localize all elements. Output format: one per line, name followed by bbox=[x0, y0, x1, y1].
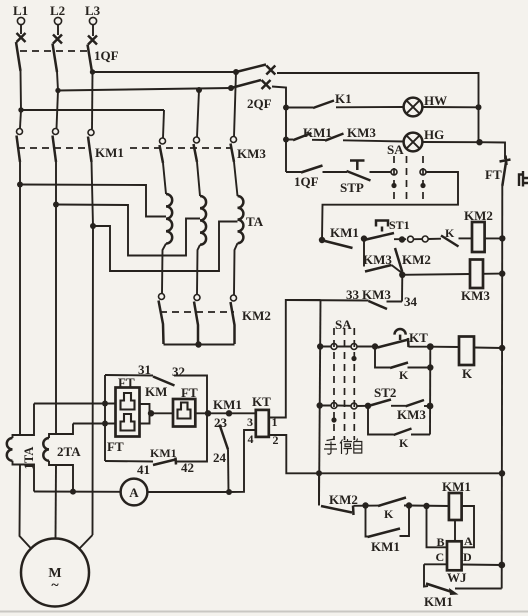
wire KM3 pole3 top bbox=[234, 72, 236, 137]
KM3 linkage dashed bbox=[130, 147, 232, 149]
svg-text:FT: FT bbox=[107, 439, 124, 454]
wire phase2 down to KM1 bbox=[57, 91, 59, 129]
wire SA left rail bbox=[319, 300, 321, 505]
wire K1 row bbox=[286, 106, 404, 109]
SA position dot bbox=[420, 183, 425, 188]
contactor KM3 pole 1 bbox=[160, 138, 166, 163]
contactor coil KM1 bbox=[449, 493, 462, 520]
svg-text:ST1: ST1 bbox=[389, 218, 410, 232]
junction bbox=[372, 343, 378, 349]
svg-text:KM3: KM3 bbox=[397, 407, 426, 422]
svg-text:1TA: 1TA bbox=[22, 447, 36, 470]
wire 1TA secondary to FT block bbox=[34, 403, 105, 405]
selector SA contact d2 bbox=[351, 403, 357, 409]
contactor KM2 pole 2 bbox=[194, 295, 200, 345]
junction bbox=[70, 489, 76, 495]
svg-text:KT: KT bbox=[409, 330, 428, 345]
node L1 bbox=[13, 3, 28, 25]
wire phase1 below KM1 bbox=[19, 162, 21, 435]
svg-text:L1: L1 bbox=[13, 3, 28, 18]
wire to KM3 coil bbox=[402, 274, 502, 275]
svg-text:A: A bbox=[129, 485, 139, 500]
contact KM1 bottom bbox=[426, 584, 459, 596]
wire STP row bbox=[286, 171, 391, 173]
svg-text:STP: STP bbox=[340, 180, 364, 195]
svg-text:KM1: KM1 bbox=[371, 539, 400, 554]
contact K branch bbox=[375, 347, 430, 369]
junction bbox=[53, 202, 59, 208]
SA position dot bbox=[391, 183, 396, 188]
junction bbox=[317, 343, 323, 349]
svg-text:K: K bbox=[462, 366, 473, 381]
svg-text:2TA: 2TA bbox=[57, 444, 81, 459]
wire SA row return bbox=[322, 172, 458, 240]
wire bypass bottom bbox=[105, 413, 207, 462]
junction bbox=[205, 410, 211, 416]
svg-text:HG: HG bbox=[424, 127, 444, 142]
svg-text:WJ: WJ bbox=[447, 570, 467, 585]
svg-text:33: 33 bbox=[346, 287, 360, 302]
svg-text:FT: FT bbox=[485, 167, 502, 182]
current transformer 2TA bbox=[43, 424, 81, 492]
wire phase3 to 2QF bbox=[92, 71, 236, 74]
selector SA contact c1 bbox=[331, 344, 337, 350]
wire motor funnel mid bbox=[55, 465, 58, 539]
lamp HW bbox=[404, 98, 423, 117]
junction bbox=[90, 69, 95, 74]
svg-text:34: 34 bbox=[404, 294, 418, 309]
wire K coil row bbox=[430, 347, 502, 348]
relay coil K bbox=[459, 337, 474, 366]
contactor KM2 pole 1 bbox=[159, 294, 165, 345]
selector SA contact c2 bbox=[351, 344, 357, 350]
wire 24 down to ammeter line bbox=[227, 450, 230, 493]
svg-text:B: B bbox=[437, 535, 445, 549]
svg-text:32: 32 bbox=[172, 364, 185, 379]
node L2 bbox=[50, 3, 65, 25]
wire WJ C loop down bbox=[424, 564, 428, 586]
junction bbox=[283, 105, 289, 111]
svg-text:KM3: KM3 bbox=[363, 252, 392, 267]
wire motor funnel right bbox=[79, 535, 93, 549]
pushbutton STP bbox=[347, 161, 371, 181]
wire motor funnel left bbox=[20, 435, 32, 549]
svg-text:K: K bbox=[445, 226, 455, 240]
wire phase2 below KM1 bbox=[55, 162, 57, 434]
junction bbox=[399, 272, 405, 278]
junction bbox=[498, 562, 505, 569]
junction bbox=[423, 503, 429, 509]
node L3 bbox=[85, 3, 101, 25]
contact KM1 bbox=[323, 241, 353, 249]
svg-text:KT: KT bbox=[252, 394, 271, 409]
contact KM3 branch bbox=[364, 239, 402, 273]
svg-text:24: 24 bbox=[213, 450, 227, 465]
wire KT to rail bbox=[409, 346, 431, 348]
wire between ST2 KM3 bbox=[391, 405, 406, 407]
wire coil2 bottom bbox=[197, 245, 200, 294]
svg-text:K: K bbox=[399, 368, 409, 382]
wire bbox=[21, 25, 93, 36]
junction bbox=[148, 410, 154, 416]
circuit breaker 2QF pole 1 bbox=[236, 65, 275, 75]
wire KT pin4 loop bbox=[229, 430, 256, 492]
contact KM1 41-42 bbox=[153, 458, 176, 466]
junction bbox=[283, 137, 289, 143]
ammeter A bbox=[121, 479, 148, 506]
wire tap2 to coil2 bbox=[56, 205, 200, 256]
circuit breaker 1QF pole 2 bbox=[53, 35, 63, 73]
svg-text:K: K bbox=[399, 436, 409, 450]
wire FT2 to KT bbox=[195, 412, 256, 414]
contact KM2 branch bbox=[395, 248, 402, 272]
wire KM1 KM3 row bbox=[286, 140, 404, 142]
svg-text:KM: KM bbox=[145, 384, 167, 399]
junction bbox=[427, 343, 434, 350]
wire WJ B loop bbox=[427, 506, 448, 547]
wire WJ C-D row bbox=[424, 563, 502, 566]
contact K branch2 bbox=[368, 406, 430, 435]
wire FT1 outputs merge bbox=[140, 404, 174, 424]
svg-text:KM3: KM3 bbox=[237, 146, 266, 161]
自 label bbox=[354, 439, 362, 454]
wire phase3 below KM1 bbox=[92, 162, 94, 535]
contact KM 31-32 bbox=[153, 377, 175, 386]
wire right rail jog bbox=[480, 142, 506, 159]
junction bbox=[90, 223, 96, 229]
wire ammeter line bbox=[34, 491, 229, 494]
wire KT pin2 down bbox=[269, 435, 502, 473]
wire phase2 feeder bbox=[57, 72, 231, 91]
wire to K contact bbox=[354, 505, 410, 507]
svg-text:3: 3 bbox=[247, 415, 253, 429]
wire tap3 to coil3 bbox=[93, 222, 238, 272]
selector SA contact b2 bbox=[422, 236, 428, 242]
wire coil3 bottom bbox=[234, 243, 238, 294]
junction bbox=[102, 421, 108, 427]
svg-text:KM3: KM3 bbox=[347, 125, 376, 140]
circuit breaker 1QF pole 1 bbox=[16, 33, 26, 71]
junction bbox=[427, 364, 433, 370]
svg-text:KM1: KM1 bbox=[150, 446, 177, 460]
停 label bbox=[340, 439, 352, 454]
junction bbox=[17, 182, 23, 188]
svg-text:KM2: KM2 bbox=[402, 252, 431, 267]
svg-text:TA: TA bbox=[246, 214, 264, 229]
wire phase1 feeder bbox=[21, 71, 165, 110]
KM2 linkage dashed bbox=[160, 311, 234, 313]
junction bbox=[476, 104, 482, 110]
time relay KT coil bbox=[256, 410, 269, 437]
contact K bbox=[441, 236, 459, 247]
svg-text:42: 42 bbox=[181, 460, 194, 475]
wire 2QF pole2 to left rail bbox=[272, 87, 286, 173]
svg-text:FT: FT bbox=[118, 375, 135, 390]
autotransformer TA coil 1 bbox=[166, 194, 172, 244]
junction bbox=[195, 341, 201, 347]
svg-text:KM1: KM1 bbox=[442, 479, 471, 494]
contact KM3 bbox=[406, 400, 425, 406]
svg-text:L2: L2 bbox=[50, 3, 65, 18]
wire KT pin1 up bbox=[269, 300, 321, 418]
contactor KM1 pole 3 bbox=[88, 130, 94, 163]
junction bbox=[228, 85, 234, 91]
svg-text:KM3: KM3 bbox=[461, 288, 490, 303]
junction bbox=[55, 88, 60, 93]
pushbutton ST2 bbox=[370, 400, 391, 406]
KM1 linkage dashed bbox=[18, 147, 90, 149]
wire KM3 pole2 top bbox=[197, 90, 199, 137]
svg-text:A: A bbox=[464, 534, 473, 548]
svg-text:SA: SA bbox=[335, 317, 352, 332]
svg-text:4: 4 bbox=[248, 432, 254, 446]
contact KM3 33-34 bbox=[369, 301, 388, 309]
svg-text:KM1: KM1 bbox=[424, 594, 453, 609]
wire 2TA secondary to FT block bbox=[73, 423, 105, 425]
heater element 2 bbox=[121, 414, 135, 431]
voltage relay WJ bbox=[447, 541, 462, 570]
junction bbox=[499, 345, 505, 351]
wire SA row1 bbox=[321, 346, 376, 348]
junction bbox=[499, 270, 505, 276]
contact 1QF aux bbox=[301, 166, 323, 173]
wire phase3 down to KM1 bbox=[91, 72, 94, 129]
svg-text:D: D bbox=[463, 550, 472, 564]
wire right rail bbox=[501, 186, 504, 589]
contact KM1 23-24 bbox=[220, 425, 229, 450]
wire KM2 row drop bbox=[318, 473, 320, 505]
svg-text:1QF: 1QF bbox=[294, 174, 319, 189]
contact KM1 bbox=[293, 133, 312, 140]
selector SA contact b1 bbox=[408, 236, 414, 242]
contactor KM1 pole 2 bbox=[53, 129, 59, 163]
junction bbox=[102, 401, 108, 407]
手 label bbox=[324, 439, 337, 454]
bottom scan rule bbox=[0, 611, 528, 613]
junction bbox=[427, 403, 434, 410]
circuit breaker 1QF pole 3 bbox=[88, 36, 98, 73]
autotransformer TA coil 2 bbox=[200, 196, 206, 245]
contactor KM3 pole 2 bbox=[194, 137, 200, 162]
wire SA row2 bbox=[320, 405, 368, 408]
autotransformer TA coil 3 bbox=[238, 196, 244, 243]
contactor coil KM2 bbox=[472, 222, 485, 252]
junction bbox=[406, 502, 412, 508]
wire to KM2 coil bbox=[459, 237, 473, 239]
svg-text:K1: K1 bbox=[335, 91, 352, 106]
wire KM3 pole1 to coil1 bbox=[163, 163, 166, 194]
wire KM2 coil to rail bbox=[485, 237, 503, 239]
circuit breaker 2QF pole 2 bbox=[231, 80, 271, 89]
wire HW to right rail bbox=[422, 106, 478, 108]
contact K bbox=[378, 498, 406, 507]
current transformer 1TA bbox=[7, 404, 36, 492]
wire into FT1 bbox=[105, 404, 116, 424]
wire coil1 bottom bbox=[162, 244, 166, 293]
contact KM1 parallel bbox=[366, 506, 410, 538]
heater element 3 bbox=[178, 403, 191, 419]
SA dashed links bbox=[394, 156, 423, 200]
wire SA to K contact bbox=[414, 238, 442, 241]
svg-text:KM1: KM1 bbox=[213, 397, 242, 412]
svg-text:HW: HW bbox=[424, 93, 447, 108]
wire KM3 pole2 to coil2 bbox=[197, 162, 200, 196]
junction bbox=[316, 470, 322, 476]
contactor KM1 pole 1 bbox=[17, 129, 23, 163]
SA position dot bbox=[331, 417, 336, 422]
motor M bbox=[21, 539, 89, 607]
junction bbox=[365, 403, 371, 409]
thermal relay FT box 2 bbox=[173, 399, 195, 427]
junction bbox=[362, 502, 368, 508]
svg-text:41: 41 bbox=[137, 462, 150, 477]
wire ST1 to SA bbox=[364, 238, 406, 241]
junction bbox=[226, 410, 232, 416]
wire to KM1 coil bbox=[409, 505, 449, 508]
junction bbox=[361, 235, 367, 241]
wire to rail bbox=[424, 405, 430, 407]
selector SA contact a1 bbox=[391, 169, 397, 175]
thermal relay FT box 1 bbox=[116, 388, 140, 437]
junction bbox=[196, 87, 202, 93]
junction bbox=[499, 470, 505, 476]
svg-text:KM2: KM2 bbox=[329, 492, 358, 507]
junction bbox=[226, 489, 232, 495]
wire 34 up bbox=[401, 275, 403, 302]
wire KM3 pole1 top bbox=[163, 110, 164, 138]
svg-text:KM2: KM2 bbox=[464, 208, 493, 223]
wire HG to right rail bbox=[422, 141, 479, 143]
svg-text:L3: L3 bbox=[85, 3, 101, 18]
contact K1 bbox=[313, 101, 334, 109]
svg-text:ST2: ST2 bbox=[374, 385, 396, 400]
wire tap1 to coil1 bbox=[20, 185, 166, 217]
wire bypass top bbox=[105, 375, 207, 413]
heater element 1 bbox=[121, 393, 135, 410]
wire phase1 down to KM1 bbox=[20, 110, 21, 128]
svg-text:KM2: KM2 bbox=[242, 308, 271, 323]
svg-text:KM3: KM3 bbox=[362, 287, 391, 302]
svg-text:~: ~ bbox=[51, 578, 59, 593]
junction bbox=[476, 139, 482, 145]
junction bbox=[18, 107, 23, 112]
svg-text:C: C bbox=[436, 550, 445, 564]
wire 33 row bbox=[286, 300, 402, 302]
heater block outer loop left bbox=[104, 375, 106, 461]
junction bbox=[319, 237, 325, 243]
svg-text:KM1: KM1 bbox=[303, 125, 332, 140]
wire KM3 pole3 to coil3 bbox=[234, 162, 238, 196]
svg-text:2QF: 2QF bbox=[247, 96, 272, 111]
pushbutton ST1 bbox=[366, 221, 394, 240]
wire KM1 coil bottom link bbox=[454, 520, 456, 541]
svg-text:SA: SA bbox=[387, 142, 404, 157]
contactor KM2 pole 3 bbox=[231, 295, 237, 344]
contactor KM3 pole 3 bbox=[231, 137, 237, 163]
thermal relay contact FT bbox=[500, 156, 511, 187]
junction bbox=[399, 236, 405, 242]
wire KM1 coil right down bbox=[462, 506, 474, 547]
FT heater glyph at edge bbox=[519, 171, 528, 187]
SA dashed links bbox=[334, 328, 354, 440]
svg-text:KM1: KM1 bbox=[95, 145, 124, 160]
1QF linkage dashed bbox=[20, 50, 90, 52]
wire star bus bbox=[164, 344, 235, 346]
svg-text:K: K bbox=[384, 507, 394, 521]
svg-text:FT: FT bbox=[181, 385, 198, 400]
svg-text:1QF: 1QF bbox=[94, 48, 119, 63]
selector SA contact d1 bbox=[331, 403, 337, 409]
contact KM3 bbox=[325, 134, 344, 141]
junction bbox=[317, 402, 323, 408]
junction bbox=[499, 235, 505, 241]
wire mid rail bbox=[429, 347, 431, 435]
time contact KT bbox=[378, 329, 409, 347]
selector SA contact a2 bbox=[420, 169, 426, 175]
lamp HG bbox=[404, 133, 423, 152]
svg-text:KM1: KM1 bbox=[330, 225, 359, 240]
wire bottom row to rail bbox=[455, 588, 502, 590]
contactor coil KM3 bbox=[470, 260, 483, 289]
SA position dot bbox=[351, 356, 356, 361]
contact KM2 bbox=[321, 506, 354, 516]
junction bbox=[233, 69, 239, 75]
wire top phase to right rail bbox=[277, 73, 479, 142]
